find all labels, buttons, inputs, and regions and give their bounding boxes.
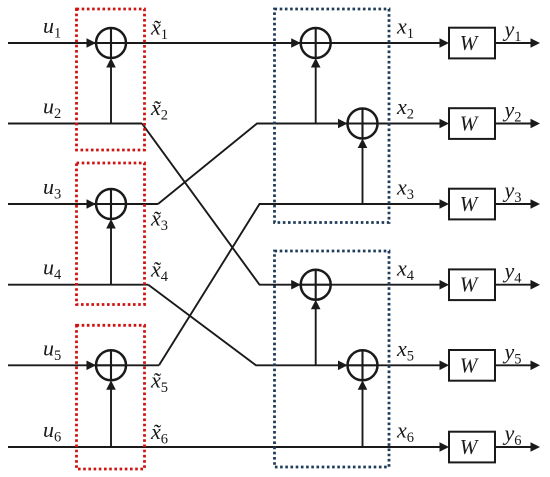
- svg-text:x3: x3: [396, 175, 414, 204]
- svg-text:x1: x1: [396, 14, 414, 43]
- blue dotted box stage2 upper: [275, 9, 390, 223]
- svg-text:W: W: [460, 31, 480, 55]
- svg-text:W: W: [460, 192, 480, 216]
- wire permutation: x~4 down to row5 into XOR U7 and W5: [148, 285, 442, 366]
- arrow into XOR U4 bottom: [311, 58, 321, 68]
- svg-text:x̃1: x̃1: [150, 15, 168, 44]
- channel W4 box with input/output arrows: [440, 269, 541, 300]
- op-amp XOR adder U2: [96, 189, 126, 219]
- red dotted box stage1 pair3: [77, 325, 145, 469]
- wire branch: row6 up into XOR U3: [110, 386, 112, 447]
- wire branch: row4 up into XOR U2: [110, 225, 112, 285]
- op-amp XOR adder U6: [301, 270, 331, 300]
- svg-text:x4: x4: [396, 255, 415, 284]
- svg-text:W: W: [460, 112, 480, 136]
- arrow into XOR U2 left: [87, 199, 97, 209]
- op-amp XOR adder U7: [348, 350, 378, 380]
- arrow into XOR U7 bottom: [358, 380, 368, 390]
- arrow into XOR U7 left: [338, 361, 348, 371]
- channel W2 box with input/output arrows: [440, 108, 541, 139]
- wire row1: XOR U4 to channel W1: [331, 42, 442, 44]
- svg-text:y5: y5: [503, 339, 522, 368]
- svg-text:x5: x5: [396, 336, 414, 365]
- wire branch: row5 up into XOR U6: [315, 306, 317, 366]
- arrow into XOR U4 left: [291, 38, 301, 48]
- svg-text:W: W: [460, 273, 480, 297]
- wire permutation: x~2 down to row4 into XOR U6 and W4: [142, 124, 442, 285]
- wire branch: row2 up into XOR U1: [110, 64, 112, 124]
- svg-text:x6: x6: [396, 418, 414, 447]
- svg-text:x̃2: x̃2: [150, 95, 168, 124]
- wire permutation: x~5 up to row3 and W3: [159, 204, 442, 365]
- arrow into XOR U5 left: [338, 119, 348, 129]
- svg-text:W: W: [460, 353, 480, 377]
- wire permutation: x~3 up to row2 into XOR U5 and W2: [158, 124, 442, 205]
- op-amp XOR adder U4: [301, 28, 331, 58]
- svg-text:y4: y4: [503, 258, 523, 287]
- arrow into XOR U3 bottom: [106, 380, 116, 390]
- arrow into XOR U3 left: [87, 361, 97, 371]
- svg-text:y2: y2: [503, 97, 522, 126]
- wire row6: u6 straight to W6: [8, 446, 442, 448]
- svg-text:u1: u1: [43, 13, 61, 42]
- svg-text:x̃3: x̃3: [150, 206, 168, 235]
- svg-text:u2: u2: [43, 94, 61, 123]
- svg-text:y1: y1: [503, 17, 522, 46]
- channel W3 box with input/output arrows: [440, 189, 541, 220]
- arrow into XOR U1 bottom: [106, 58, 116, 68]
- channel W6 box with input/output arrows: [440, 432, 541, 463]
- arrow into XOR U6 left: [291, 280, 301, 290]
- svg-text:y6: y6: [503, 421, 522, 450]
- channel W1 box with input/output arrows: [440, 28, 541, 59]
- wire row5: u5 input: [8, 364, 159, 366]
- op-amp XOR adder U3: [96, 350, 126, 380]
- svg-text:x2: x2: [396, 94, 414, 123]
- arrow into XOR U5 bottom: [358, 139, 368, 149]
- svg-text:u6: u6: [43, 417, 61, 446]
- wire row4: u4 input: [8, 284, 148, 286]
- red dotted box stage1 pair2: [77, 163, 145, 305]
- svg-text:x̃4: x̃4: [150, 256, 169, 285]
- red dotted box stage1 pair1: [77, 9, 145, 150]
- svg-text:x̃6: x̃6: [150, 419, 168, 448]
- channel W5 box with input/output arrows: [440, 350, 541, 381]
- wire branch: row2 up into XOR U4: [315, 64, 317, 124]
- arrow into XOR U1 left: [87, 38, 97, 48]
- svg-text:u4: u4: [43, 255, 62, 284]
- wire branch: row6 up into XOR U7: [362, 386, 364, 447]
- arrow into XOR U2 bottom: [106, 219, 116, 229]
- svg-text:y3: y3: [503, 178, 522, 207]
- wire row1: u1 through XOR U1 to XOR U4: [8, 42, 301, 44]
- svg-text:u3: u3: [43, 174, 61, 203]
- wire row3: u3 input: [8, 203, 158, 205]
- svg-text:x̃5: x̃5: [150, 367, 168, 396]
- svg-text:W: W: [460, 435, 480, 459]
- wire branch: row3 up into XOR U5: [362, 145, 364, 205]
- op-amp XOR adder U5: [348, 109, 378, 139]
- svg-text:u5: u5: [43, 335, 61, 364]
- op-amp XOR adder U1: [96, 28, 126, 58]
- arrow into XOR U6 bottom: [311, 300, 321, 310]
- wire row2: u2 input: [8, 123, 142, 125]
- blue dotted box stage2 lower: [275, 251, 390, 467]
